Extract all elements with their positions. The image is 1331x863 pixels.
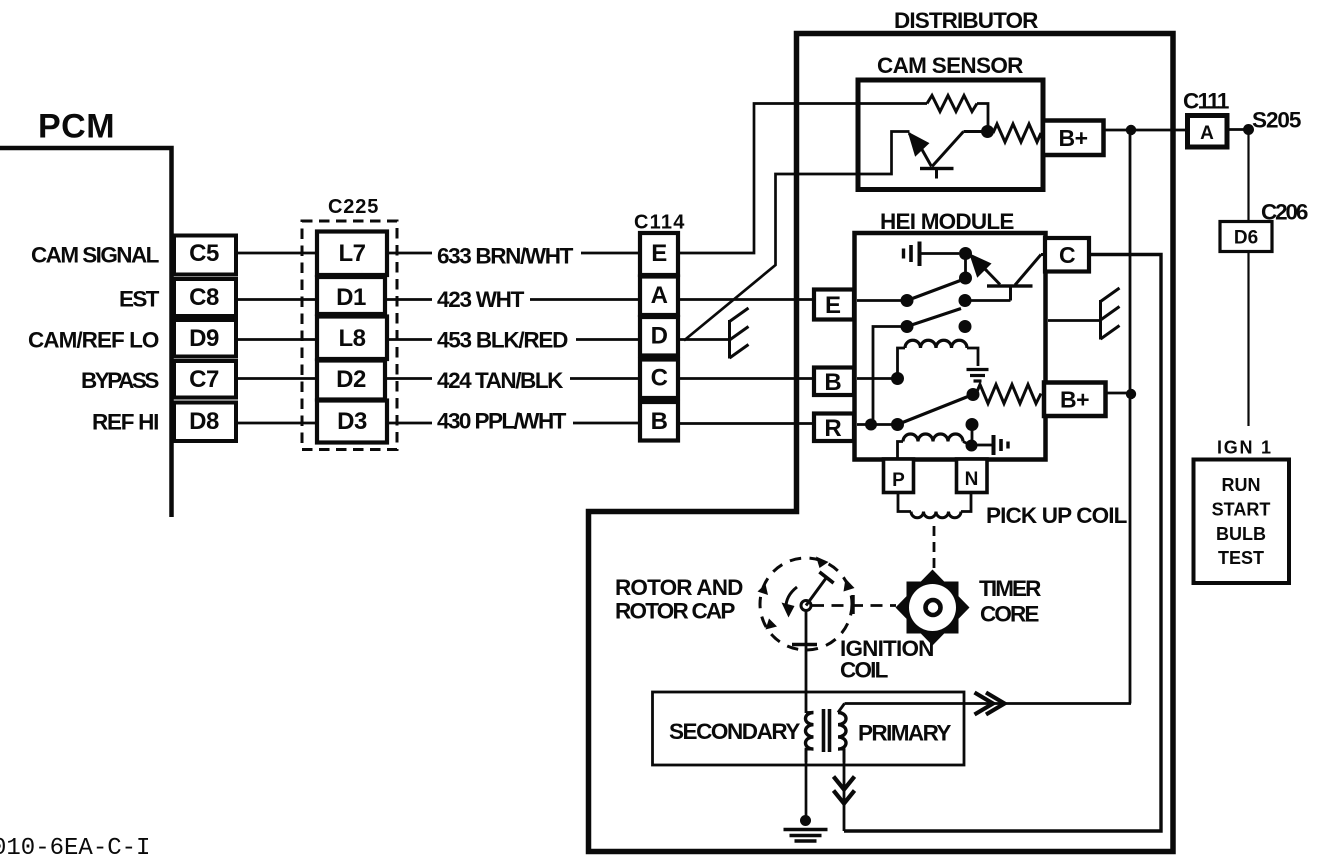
svg-text:CAM/REF LO: CAM/REF LO [28, 328, 159, 353]
wire C box to right vertical [844, 255, 1161, 832]
wire L1 right lead [967, 348, 978, 366]
wire L2 right lead to dot9 [963, 442, 972, 446]
transistor Q2 HEI emitter arrow [972, 257, 1000, 285]
wire A to S205 [1227, 128, 1246, 131]
svg-text:C: C [1059, 242, 1075, 268]
wire dot1 to dot2 [964, 254, 967, 279]
ground right of HEI module [1048, 288, 1120, 340]
node HEI dot1 [959, 247, 972, 260]
transistor Q1 cam sensor [909, 132, 982, 179]
wire N down to pick up coil [961, 493, 971, 512]
svg-text:430 PPL/WHT: 430 PPL/WHT [437, 409, 567, 434]
svg-text:DISTRIBUTOR: DISTRIBUTOR [894, 8, 1038, 33]
C225 pin D3 [317, 401, 387, 443]
wire C8 to D1 [236, 298, 319, 301]
svg-text:IGN 1: IGN 1 [1217, 438, 1271, 458]
node dot5 [901, 320, 914, 333]
HEI terminal B box [814, 368, 854, 397]
primary winding [838, 704, 846, 763]
PCM module boundary line [0, 148, 172, 517]
wire HEI B into node [857, 377, 898, 380]
timer core star [896, 570, 970, 646]
C114 pin C [640, 360, 678, 399]
ignition coil box [653, 692, 965, 765]
svg-text:C5: C5 [189, 240, 219, 267]
svg-text:CAM SIGNAL: CAM SIGNAL [31, 243, 160, 268]
svg-text:B: B [651, 408, 668, 435]
wire D3 right stub [387, 422, 432, 425]
svg-text:HEI MODULE: HEI MODULE [880, 209, 1014, 234]
wire C114-D diagonal up to cam sensor [684, 132, 910, 341]
wire HEI B+ to vertical feed [1106, 392, 1132, 395]
wire 424 to C114-C [570, 377, 640, 380]
wire C114-C to HEI B [678, 377, 814, 380]
wire primary top to B+ vertical [845, 702, 1132, 705]
node dot8 [966, 418, 979, 431]
C225 pin D2 [317, 361, 385, 400]
C206 pin D6 box [1220, 222, 1272, 252]
node dotB [891, 372, 904, 385]
PCM pin C7 [174, 361, 236, 398]
ground below secondary [784, 830, 828, 842]
svg-text:A: A [1200, 123, 1214, 144]
connector C225 dashed outline [302, 221, 397, 450]
svg-text:453 BLK/RED: 453 BLK/RED [437, 328, 568, 353]
rotor arm [806, 572, 834, 606]
PCM pin D9 [174, 320, 236, 357]
C114 pin B [640, 402, 678, 441]
dashed link rotor to timer core [812, 604, 896, 607]
svg-text:EST: EST [119, 287, 160, 312]
node HEI dot2 [959, 272, 972, 285]
PCM pin C8 [174, 279, 236, 316]
svg-text:CORE: CORE [980, 602, 1039, 627]
wire C114-B to HEI R [678, 422, 814, 425]
wire B+ vertical feed down [1129, 130, 1132, 704]
wire C114-A to HEI E [678, 298, 814, 301]
HEI terminal R box [814, 414, 854, 443]
node B+ junction S-top [1126, 125, 1136, 135]
node dot3 [901, 294, 914, 307]
svg-text:SECONDARY: SECONDARY [669, 719, 800, 744]
svg-text:D1: D1 [336, 284, 366, 311]
node ground dot [800, 815, 811, 826]
switch arm 3 to dot7 [898, 395, 974, 425]
svg-text:L8: L8 [338, 325, 365, 352]
arrow chevrons down on primary return [834, 777, 855, 804]
wire primary bottom with arrow [843, 749, 846, 831]
wire HEI E into dot3 [857, 299, 907, 302]
node dotR2 [891, 418, 904, 431]
wire L7 right stub [387, 252, 432, 255]
arrow chevrons on primary feed [975, 693, 1005, 715]
C114 pin E [640, 233, 678, 275]
node dot7 [967, 388, 980, 401]
svg-text:START: START [1212, 500, 1271, 520]
svg-text:C8: C8 [189, 284, 219, 311]
node S205 [1243, 124, 1254, 135]
HEI module box [855, 233, 1046, 460]
ROTOR AND ROTOR CAP label [615, 575, 743, 624]
svg-text:BULB: BULB [1216, 524, 1266, 544]
node dotR1 [865, 419, 877, 431]
svg-text:D2: D2 [336, 366, 366, 393]
wire dot4 to Q2 emitter tick [965, 299, 1011, 302]
svg-text:ROTOR CAP: ROTOR CAP [615, 599, 735, 624]
svg-text:PICK UP COIL: PICK UP COIL [986, 503, 1128, 528]
ground below L1 [967, 370, 989, 382]
ground at 453 BLK/RED wire [730, 308, 749, 359]
wire C114-E up to cam sensor [678, 104, 927, 254]
wire L2 left lead to P [898, 442, 904, 460]
svg-text:N: N [965, 469, 979, 490]
HEI terminal B+ box [1044, 383, 1106, 417]
switch arm dot2 to dot3 [907, 280, 963, 301]
C114 pin A [640, 277, 678, 316]
svg-text:D8: D8 [189, 408, 219, 435]
svg-text:L7: L7 [338, 240, 365, 267]
wire secondary down to ground [805, 749, 808, 818]
wire D8 to D3 [236, 422, 319, 425]
RUN START BULB TEST box [1194, 460, 1290, 584]
svg-text:RUN: RUN [1222, 475, 1261, 495]
svg-text:TEST: TEST [1218, 548, 1264, 568]
wire dot9 to ground [977, 444, 992, 447]
PCM pin D8 [174, 403, 236, 442]
svg-text:C: C [651, 365, 668, 392]
svg-text:S205: S205 [1252, 108, 1301, 133]
wire 453 to C114-D [576, 338, 640, 341]
svg-text:PRIMARY: PRIMARY [858, 721, 951, 746]
ground in HEI top left [904, 242, 960, 267]
svg-text:E: E [825, 292, 841, 319]
ground right of L2 [994, 435, 1009, 455]
HEI pin P box [884, 459, 914, 493]
svg-text:COIL: COIL [840, 658, 889, 683]
svg-text:D: D [651, 323, 668, 350]
svg-text:TIMER: TIMER [979, 576, 1041, 601]
pick up coil winding [911, 512, 961, 518]
wire C114-D stub [678, 338, 730, 341]
wire S205 down to C206 [1247, 130, 1249, 222]
rotor rotation arc arrow [782, 587, 798, 618]
resistor R2 in cam sensor [993, 124, 1041, 142]
HEI pin N box [957, 459, 988, 493]
svg-text:A: A [651, 282, 668, 309]
wire C206 down to IGN 1 [1247, 252, 1249, 427]
svg-text:424 TAN/BLK: 424 TAN/BLK [437, 368, 564, 393]
C225 pin L7 [317, 232, 387, 276]
IGNITION COIL label [840, 636, 934, 683]
node dot4 [959, 294, 972, 307]
HEI terminal C box [1045, 238, 1089, 272]
svg-text:B+: B+ [1060, 387, 1089, 413]
wire L1 left lead to node B [898, 348, 906, 379]
wire 633 to C114-E [581, 252, 640, 255]
svg-text:C225: C225 [328, 196, 378, 218]
C114 pin D [640, 317, 678, 356]
C225 pin D1 [317, 277, 385, 314]
wire 430 to C114-B [573, 422, 640, 425]
node HEI B+ junction [1126, 389, 1136, 399]
transformer core bars [824, 709, 830, 752]
C111 pin A box [1188, 116, 1228, 148]
svg-text:B+: B+ [1058, 125, 1087, 151]
node dot6 [959, 320, 972, 333]
cam sensor B+ terminal box [1043, 121, 1104, 156]
rotor center hub [801, 601, 811, 611]
wire L8 right stub [387, 338, 432, 341]
svg-text:REF HI: REF HI [92, 410, 159, 435]
wire HEI R row [857, 423, 898, 426]
wire D9 to L8 [236, 338, 319, 341]
svg-text:BYPASS: BYPASS [81, 368, 159, 393]
wire P down to pick up coil [898, 493, 911, 512]
wire C5 to L7 [236, 252, 319, 255]
svg-text:R: R [824, 415, 841, 442]
dashed link pick up coil to timer core [933, 526, 936, 570]
switch arm 2 from dot5 [907, 309, 961, 327]
TIMER CORE label [979, 576, 1041, 627]
wire dot8 to dot9 [971, 425, 974, 446]
rotor dashed circle [760, 558, 852, 650]
secondary winding [806, 713, 814, 763]
svg-text:D6: D6 [1234, 228, 1258, 249]
coil L1 upper HEI winding [905, 340, 967, 348]
PCM pin C5 [174, 236, 236, 275]
wire B+ to C111-A [1104, 129, 1188, 132]
svg-text:E: E [651, 240, 667, 267]
coil L2 lower HEI winding [903, 434, 963, 442]
svg-text:CAM SENSOR: CAM SENSOR [877, 53, 1023, 78]
svg-text:P: P [892, 470, 905, 491]
wire rotor down to secondary [805, 611, 808, 714]
cam sensor box [858, 80, 1043, 190]
svg-text:C7: C7 [189, 366, 219, 393]
transistor Q2 base bar and collector [987, 255, 1045, 301]
node dot9 [966, 440, 978, 452]
svg-text:ROTOR AND: ROTOR AND [615, 575, 743, 600]
distributor housing outline [589, 34, 1174, 852]
wire 423 to C114-A [530, 298, 640, 301]
svg-text:010-6EA-C-I: 010-6EA-C-I [0, 835, 150, 862]
svg-text:B: B [824, 369, 841, 396]
wire D2 right stub [385, 377, 432, 380]
node cam sensor collector junction [981, 125, 994, 138]
resistor R3 to B+ [976, 385, 1041, 404]
wire D1 right stub [385, 298, 432, 301]
resistor R1 in cam sensor [927, 96, 977, 112]
svg-text:423 WHT: 423 WHT [437, 287, 525, 312]
HEI terminal E box [814, 290, 854, 320]
C225 pin L8 [317, 317, 387, 360]
wire R1 to node [977, 104, 988, 127]
wire C7 to D2 [236, 377, 319, 380]
svg-text:633 BRN/WHT: 633 BRN/WHT [437, 244, 574, 269]
svg-text:D9: D9 [189, 325, 219, 352]
svg-text:C111: C111 [1183, 89, 1229, 114]
svg-text:D3: D3 [337, 408, 367, 435]
svg-text:PCM: PCM [38, 108, 115, 146]
wire dot5 left and down to R row [873, 327, 907, 425]
